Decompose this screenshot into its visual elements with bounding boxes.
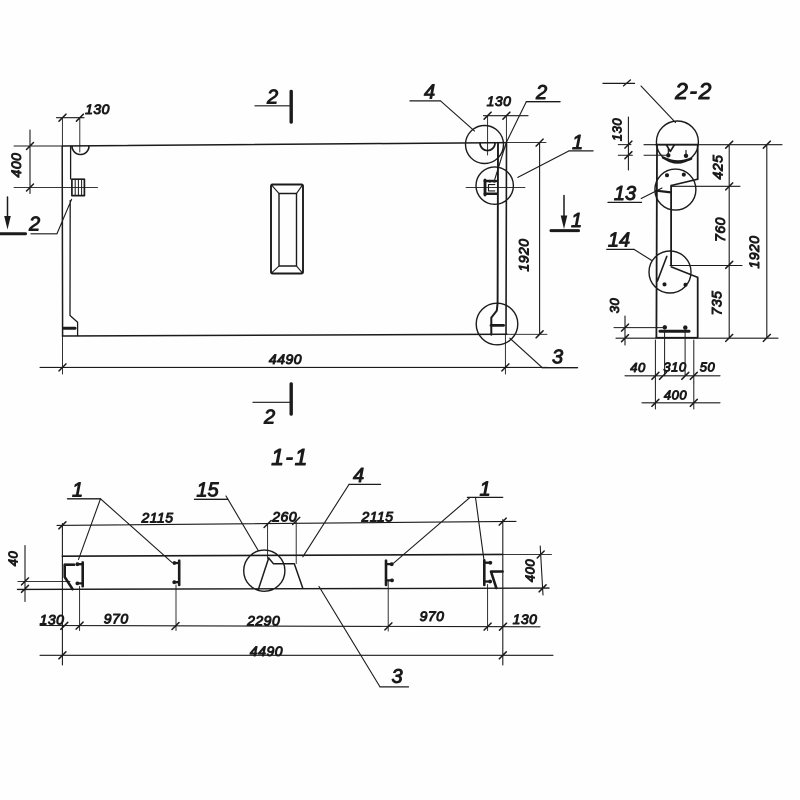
anchor dots circle 13 <box>665 173 669 177</box>
svg-text:3: 3 <box>552 347 563 369</box>
svg-text:30: 30 <box>607 298 622 314</box>
diagonal in circle 14 <box>657 256 666 281</box>
panel left inner edge lower <box>70 201 78 337</box>
top face <box>62 554 502 556</box>
svg-text:2-2: 2-2 <box>674 78 713 104</box>
anchor dots circle 14 <box>663 282 667 286</box>
section top edge + dim extension <box>644 144 782 146</box>
top detail circle <box>656 121 698 163</box>
svg-text:735: 735 <box>709 291 725 316</box>
corner rib jog in circle 3 <box>491 303 497 335</box>
svg-text:15: 15 <box>196 480 219 502</box>
left anchor plate <box>72 179 85 195</box>
section 2 trace diagonal <box>57 199 72 233</box>
svg-text:13: 13 <box>614 183 636 205</box>
top reference bar <box>603 82 635 84</box>
detail circle 14 <box>649 251 691 293</box>
right extension line <box>502 520 504 666</box>
left end rib <box>65 565 74 590</box>
step diagonal circle 13 <box>671 179 698 185</box>
bottom face + dim extensions <box>18 588 550 589</box>
corner rib bar <box>491 324 504 327</box>
section mark 2 left margin <box>7 197 9 216</box>
svg-text:3: 3 <box>391 666 402 688</box>
right anchor centerline <box>466 186 525 188</box>
svg-text:970: 970 <box>420 608 445 624</box>
svg-text:760: 760 <box>712 217 728 242</box>
svg-text:1-1: 1-1 <box>271 444 309 470</box>
section right edge lower <box>697 277 699 337</box>
svg-text:1: 1 <box>571 210 582 232</box>
left corner weld bar <box>64 327 75 330</box>
svg-text:130: 130 <box>610 118 625 141</box>
svg-text:400: 400 <box>8 153 24 178</box>
left anchor centerline <box>14 187 98 189</box>
channel rib 2 <box>178 561 181 585</box>
panel bottom edge <box>62 334 507 336</box>
web inner edge <box>670 186 672 266</box>
opening corner chamfer lines <box>272 185 303 273</box>
left lifting notch <box>72 146 89 155</box>
panel left inner edge upper <box>70 146 72 179</box>
svg-text:4: 4 <box>353 465 364 487</box>
svg-text:1920: 1920 <box>746 235 762 268</box>
right anchor element <box>484 180 487 195</box>
right lifting notch <box>480 143 495 151</box>
svg-text:50: 50 <box>700 360 716 375</box>
panel right inner edge <box>497 143 499 303</box>
SECTION 1-1 <box>6 444 554 688</box>
left step line circle 13 <box>656 191 671 193</box>
svg-text:2: 2 <box>263 407 275 429</box>
svg-text:970: 970 <box>104 611 129 627</box>
svg-text:2115: 2115 <box>140 510 173 526</box>
svg-text:4490: 4490 <box>250 643 283 659</box>
svg-text:1920: 1920 <box>516 238 532 271</box>
top lifting loop detail <box>667 145 675 151</box>
svg-text:260: 260 <box>271 509 297 525</box>
svg-text:2: 2 <box>535 82 547 104</box>
svg-text:14: 14 <box>608 230 630 252</box>
panel right outer edge <box>505 143 508 335</box>
svg-text:130: 130 <box>513 611 538 627</box>
PLAN VIEW <box>0 82 593 429</box>
svg-text:400: 400 <box>523 559 538 582</box>
detail circle 3 <box>476 303 518 345</box>
channel rib 3 <box>385 561 388 585</box>
bottom anchor bar <box>660 330 689 333</box>
section mark 1 right <box>563 196 565 216</box>
opening outer rect <box>271 185 303 274</box>
detail circle 13 <box>655 169 696 210</box>
section right edge upper <box>697 145 699 180</box>
level line 425 <box>672 185 740 187</box>
right end rib <box>491 572 503 589</box>
detail circle 15 <box>244 550 285 591</box>
section left edge <box>655 145 658 338</box>
level line 760/735 <box>670 265 742 267</box>
panel top edge <box>62 143 506 146</box>
middle trapezoid rib <box>269 558 303 588</box>
svg-text:2: 2 <box>28 214 40 236</box>
svg-text:130: 130 <box>85 101 110 117</box>
opening inner rect <box>279 194 297 267</box>
svg-text:130: 130 <box>487 93 512 109</box>
svg-text:4490: 4490 <box>269 351 302 367</box>
svg-text:2: 2 <box>266 87 278 109</box>
channel rib 1 <box>81 562 84 586</box>
detail circle 4 <box>466 126 504 164</box>
SECTION 2-2 <box>603 78 782 409</box>
top leader <box>641 86 676 123</box>
channel rib 4 <box>483 560 486 585</box>
svg-text:40: 40 <box>630 360 646 375</box>
detail circle 1 <box>476 167 513 204</box>
svg-text:400: 400 <box>664 388 687 403</box>
section bottom edge + dim extensions <box>616 337 778 339</box>
left extension line <box>61 524 63 666</box>
svg-text:40: 40 <box>6 551 21 567</box>
step diagonal circle 14 <box>671 267 697 278</box>
section mark 2 top <box>255 105 290 107</box>
section mark 2 bottom <box>253 401 290 403</box>
svg-text:425: 425 <box>710 155 726 180</box>
panel left outer edge <box>61 146 63 336</box>
